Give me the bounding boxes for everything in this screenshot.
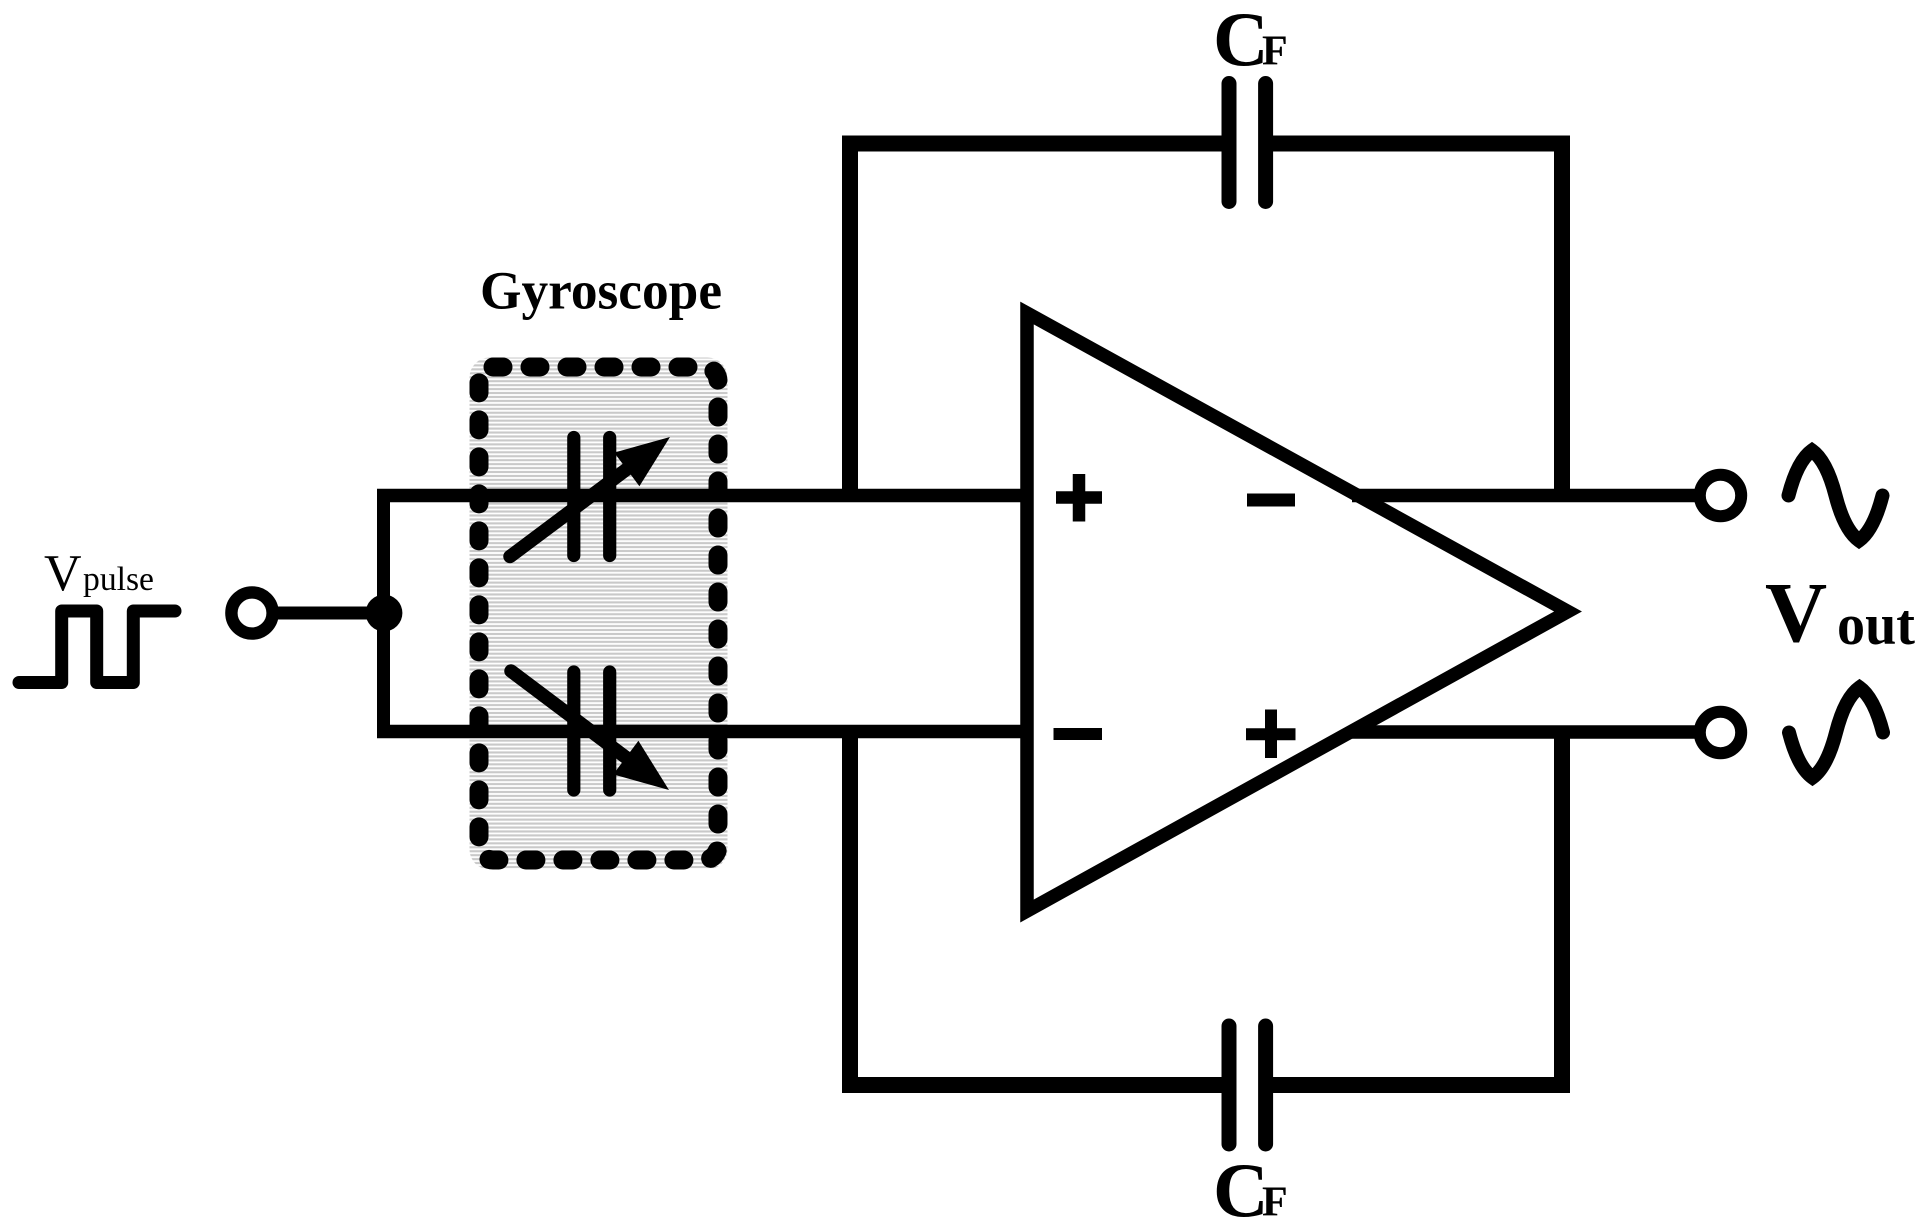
wire input to junction — [271, 607, 384, 620]
svg-text:V: V — [44, 545, 82, 602]
sine symbol top output — [1789, 451, 1883, 541]
op-amp U1 triangle — [1027, 313, 1568, 911]
input terminal — [231, 592, 272, 633]
op-amp minus input bottom — [1054, 728, 1103, 740]
svg-text:C: C — [1213, 1147, 1269, 1231]
pulse waveform symbol — [19, 611, 175, 683]
variable capacitor C1 plates — [567, 438, 580, 556]
wire top feedback left — [850, 144, 1222, 496]
variable capacitor C2 plates — [567, 672, 580, 790]
wire bottom output — [1352, 725, 1700, 739]
svg-text:C: C — [1213, 0, 1269, 82]
op-amp plus output bottom — [1246, 728, 1296, 740]
variable capacitor C1 arrow — [510, 468, 629, 557]
wire bottom feedback right — [1273, 732, 1562, 1086]
gyroscope box hatch fill — [470, 358, 728, 870]
svg-text:Gyroscope: Gyroscope — [480, 261, 722, 321]
wire top output — [1352, 489, 1700, 503]
capacitor CF top plates — [1222, 84, 1237, 202]
variable capacitor C2 arrow — [511, 671, 628, 759]
svg-text:V: V — [1765, 564, 1827, 660]
wire junction vertical — [377, 489, 390, 738]
node junction dot — [366, 595, 403, 632]
gyroscope dashed box border — [479, 367, 718, 860]
op-amp minus output top — [1247, 494, 1295, 507]
wire bottom input branch — [377, 725, 1040, 739]
wire top feedback right — [1273, 144, 1562, 496]
sine symbol bottom output — [1789, 688, 1883, 778]
wire bottom feedback left — [850, 732, 1222, 1086]
op-amp plus input top — [1056, 491, 1102, 504]
svg-text:F: F — [1262, 1180, 1288, 1226]
svg-text:pulse: pulse — [83, 561, 154, 598]
output terminal bottom — [1700, 712, 1741, 753]
capacitor CF bottom plates — [1222, 1026, 1237, 1144]
wire top input branch — [377, 489, 1040, 503]
svg-text:out: out — [1837, 592, 1916, 657]
svg-text:F: F — [1262, 29, 1288, 75]
output terminal top — [1700, 475, 1741, 516]
